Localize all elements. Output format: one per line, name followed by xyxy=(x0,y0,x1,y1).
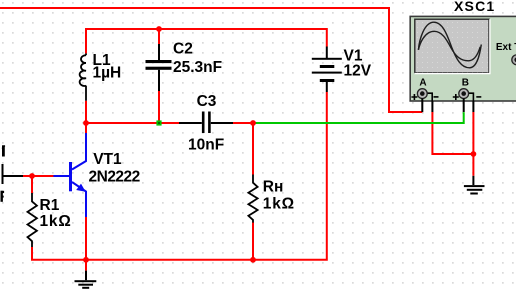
wire emitter red xyxy=(85,217,87,260)
capacitor C1 partial plate xyxy=(2,164,4,184)
oscilloscope screen xyxy=(415,19,489,73)
junction node Rn rail xyxy=(250,257,256,263)
wire scope B minus red to ground xyxy=(472,112,474,176)
svg-text:XSC1: XSC1 xyxy=(454,0,495,14)
wire top rail to scope A+ xyxy=(0,8,422,112)
oscilloscope pin B plus xyxy=(463,98,465,112)
junction node green C2 bottom xyxy=(156,120,161,125)
svg-text:R1: R1 xyxy=(40,197,60,214)
oscilloscope XSC1 body xyxy=(410,16,516,101)
svg-text:C3: C3 xyxy=(197,93,217,110)
transistor VT1 2N2222 xyxy=(53,133,86,217)
svg-text:VT1: VT1 xyxy=(93,151,122,168)
oscilloscope pin A minus xyxy=(431,101,433,112)
ground scope xyxy=(464,176,485,195)
capacitor C2 xyxy=(146,44,172,91)
svg-text:10nF: 10nF xyxy=(188,137,224,154)
battery V1 xyxy=(312,47,342,93)
wire C2 top red xyxy=(158,29,160,45)
svg-text:B: B xyxy=(462,78,469,89)
oscilloscope pin B minus xyxy=(472,101,474,112)
svg-text:C2: C2 xyxy=(173,41,193,58)
wire green output to scope B xyxy=(253,112,464,123)
oscilloscope plus minus marks xyxy=(411,94,481,100)
wire L1 bottom to collector node xyxy=(85,101,87,134)
wire node row red right of C3 xyxy=(233,122,253,124)
oscilloscope waveform outer xyxy=(418,22,481,68)
oscilloscope pin A plus xyxy=(421,98,423,112)
resistor Rn load xyxy=(248,175,257,223)
junction node emitter rail xyxy=(83,257,89,263)
wire scope A minus red xyxy=(432,112,473,154)
wire V1 bottom and bottom rail xyxy=(32,92,327,260)
wire ground stub red left xyxy=(85,260,87,271)
junction node base xyxy=(29,173,35,179)
svg-text:1µH: 1µH xyxy=(93,65,122,82)
svg-text:2N2222: 2N2222 xyxy=(89,169,140,186)
wire C2 bottom red xyxy=(158,91,160,123)
svg-text:12V: 12V xyxy=(344,63,372,80)
wire L1 top segment xyxy=(85,28,87,53)
wire Rn top red xyxy=(252,123,254,175)
oscilloscope Ext terminal xyxy=(512,55,516,65)
svg-text:Rн: Rн xyxy=(263,178,284,195)
wire second rail L1/C2/V1 xyxy=(86,28,327,30)
wire Rn bottom red xyxy=(252,223,254,260)
svg-text:1kΩ: 1kΩ xyxy=(40,213,72,230)
svg-text:25.3nF: 25.3nF xyxy=(173,59,222,76)
svg-text:A: A xyxy=(419,78,426,89)
wire input black xyxy=(3,175,24,177)
wire node row red left xyxy=(85,122,179,124)
wire R1 top red xyxy=(31,176,33,193)
ground left xyxy=(75,271,97,289)
capacitor C3 xyxy=(179,112,233,134)
inductor L1 xyxy=(80,53,86,100)
capacitor C1 label fragment xyxy=(2,145,5,156)
wire base red xyxy=(23,175,56,177)
junction node C3 right xyxy=(250,120,256,126)
svg-text:Ext Tr: Ext Tr xyxy=(496,42,516,53)
junction node scope minus xyxy=(471,151,477,157)
resistor R1 xyxy=(28,193,37,247)
svg-text:1kΩ: 1kΩ xyxy=(263,196,295,213)
junction node collector xyxy=(83,120,89,126)
junction node C2 top xyxy=(156,26,162,32)
oscilloscope waveform inner xyxy=(418,31,480,61)
wire V1 top xyxy=(326,28,328,47)
